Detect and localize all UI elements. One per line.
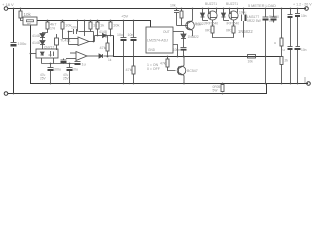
svg-text:100u: 100u xyxy=(18,41,27,46)
svg-text:25V: 25V xyxy=(63,77,70,81)
IC U4 LM2574 box xyxy=(146,27,173,53)
divider column x281 xyxy=(280,9,283,84)
capacitor C4 feedback xyxy=(74,29,77,34)
capacitor C8 xyxy=(131,21,137,67)
svg-text:47k: 47k xyxy=(160,62,166,66)
transistor Q2 xyxy=(177,57,186,84)
op-amp U1A xyxy=(78,32,95,46)
svg-text:0R1: 0R1 xyxy=(205,29,211,33)
resistor R7 xyxy=(106,36,109,57)
svg-text:BUZ271: BUZ271 xyxy=(226,2,238,6)
svg-text:10n: 10n xyxy=(128,33,134,37)
shunt reg U2 TL431 xyxy=(55,34,59,50)
resistor R5 xyxy=(96,21,99,36)
svg-text:100u: 100u xyxy=(239,11,247,15)
wire IC out xyxy=(173,32,184,35)
resistor R6 xyxy=(109,21,112,36)
resistor R14 base xyxy=(166,57,176,71)
svg-text:2k: 2k xyxy=(285,59,289,63)
svg-text:0R22 5W: 0R22 5W xyxy=(247,19,262,23)
resistor R4 xyxy=(89,21,92,32)
wire opamp supply xyxy=(84,21,86,37)
wire top bus xyxy=(8,8,306,10)
resistor R10 source xyxy=(211,26,234,38)
transistor Q1 xyxy=(177,9,195,37)
svg-text:10u: 10u xyxy=(117,33,123,37)
wire stub near output xyxy=(304,77,306,83)
relay box K1 xyxy=(23,17,37,25)
svg-text:+5V: +5V xyxy=(121,14,129,19)
column x290 xyxy=(288,9,293,84)
column x297 xyxy=(295,9,300,84)
wire bottom bus B xyxy=(8,84,267,94)
diode D2 xyxy=(40,41,45,50)
svg-text:IRF9540: IRF9540 xyxy=(227,22,240,26)
capacitor C1 on left vertical xyxy=(11,42,17,44)
svg-text:5 METER LOAD: 5 METER LOAD xyxy=(248,4,276,8)
optocoupler U3 box xyxy=(31,49,59,64)
resistor R9 xyxy=(180,9,183,26)
zener Z1 gate xyxy=(201,9,205,21)
wire fb-cap node xyxy=(69,21,94,45)
svg-text:LM2574-ADJ: LM2574-ADJ xyxy=(147,39,168,43)
capacitor C12 xyxy=(271,9,277,23)
wire right column x265 xyxy=(263,9,269,84)
svg-text:rel: rel xyxy=(27,22,31,26)
resistor R3 xyxy=(61,21,78,39)
svg-text:4148: 4148 xyxy=(32,41,40,45)
svg-text:OUT: OUT xyxy=(163,30,170,34)
terminal input + xyxy=(4,7,8,11)
svg-text:1N5822: 1N5822 xyxy=(188,35,199,39)
mosfet M2 xyxy=(224,9,239,27)
svg-text:10k: 10k xyxy=(196,23,202,27)
capacitor C3 xyxy=(67,64,73,84)
svg-text:+ 18 V: + 18 V xyxy=(2,2,14,7)
diode D1 xyxy=(40,34,45,41)
svg-text:0 = OFF: 0 = OFF xyxy=(147,67,160,71)
svg-text:4148: 4148 xyxy=(99,30,107,34)
capacitor C7 xyxy=(121,21,127,84)
svg-text:10k: 10k xyxy=(170,4,176,8)
svg-text:10k: 10k xyxy=(113,23,119,28)
capacitor C9 xyxy=(181,48,187,57)
resistor R8 xyxy=(132,66,135,84)
svg-text:10n: 10n xyxy=(301,14,307,18)
diode D4 ORing xyxy=(95,54,114,58)
terminal output + xyxy=(305,7,309,11)
svg-text:1%: 1% xyxy=(50,27,55,31)
diode D5 catch xyxy=(181,34,186,48)
capacitor C5 under opamp xyxy=(61,59,67,64)
svg-text:10k: 10k xyxy=(248,60,254,64)
diode D3 ORing xyxy=(95,34,114,38)
wire control rail y56 xyxy=(114,36,282,57)
svg-text:100n: 100n xyxy=(173,48,180,52)
resistor R11 source xyxy=(232,26,235,33)
capacitor C10 base xyxy=(174,9,179,26)
svg-text:1u: 1u xyxy=(82,63,86,67)
wire left vertical xyxy=(13,9,15,43)
svg-text:10n: 10n xyxy=(71,26,77,30)
svg-text:u: u xyxy=(274,41,276,45)
capacitor C2 xyxy=(48,64,54,84)
svg-text:u: u xyxy=(283,47,285,52)
resistor R2 chain top xyxy=(43,21,50,34)
terminal input - xyxy=(4,92,8,96)
svg-text:CNY17: CNY17 xyxy=(44,46,55,50)
svg-text:BUZ271: BUZ271 xyxy=(205,2,217,6)
svg-text:100u: 100u xyxy=(53,68,61,72)
svg-text:4148: 4148 xyxy=(32,34,40,38)
capacitor C6 on y63 xyxy=(75,61,81,63)
svg-text:1k: 1k xyxy=(108,58,112,62)
capacitor C11 output xyxy=(242,9,244,38)
svg-text:1k: 1k xyxy=(100,23,104,28)
svg-text:0R1: 0R1 xyxy=(226,29,232,33)
terminal output - xyxy=(307,82,311,86)
svg-text:47k: 47k xyxy=(100,46,106,50)
svg-text:1N5822: 1N5822 xyxy=(238,29,253,34)
svg-text:25V: 25V xyxy=(40,77,47,81)
svg-text:10n: 10n xyxy=(301,48,307,52)
resistor R1 xyxy=(19,9,23,21)
svg-text:1k: 1k xyxy=(93,23,97,28)
svg-text:+ 1.2 - 20 V: + 1.2 - 20 V xyxy=(293,3,312,7)
svg-text:10u: 10u xyxy=(72,68,78,72)
resistor R12 sense in series xyxy=(248,55,256,59)
svg-text:IRF9540: IRF9540 xyxy=(206,22,219,26)
svg-text:TL431: TL431 xyxy=(60,39,71,43)
svg-text:GND: GND xyxy=(148,48,156,52)
wire y63 rail xyxy=(42,63,78,65)
svg-text:BC547: BC547 xyxy=(187,69,198,73)
wire FB pin xyxy=(173,45,178,57)
svg-text:47k: 47k xyxy=(126,68,132,72)
svg-text:10k: 10k xyxy=(24,12,32,17)
wire left vertical lower xyxy=(13,48,15,94)
wire ground bus A xyxy=(31,26,309,84)
resistor R13 shunt bottom xyxy=(221,85,224,92)
wire feedback rail y20 xyxy=(37,21,151,28)
mosfet M1 xyxy=(203,9,218,27)
op-amp U1B xyxy=(66,52,95,61)
zener Z2 gate xyxy=(222,9,226,21)
svg-text:4N: 4N xyxy=(48,53,52,57)
